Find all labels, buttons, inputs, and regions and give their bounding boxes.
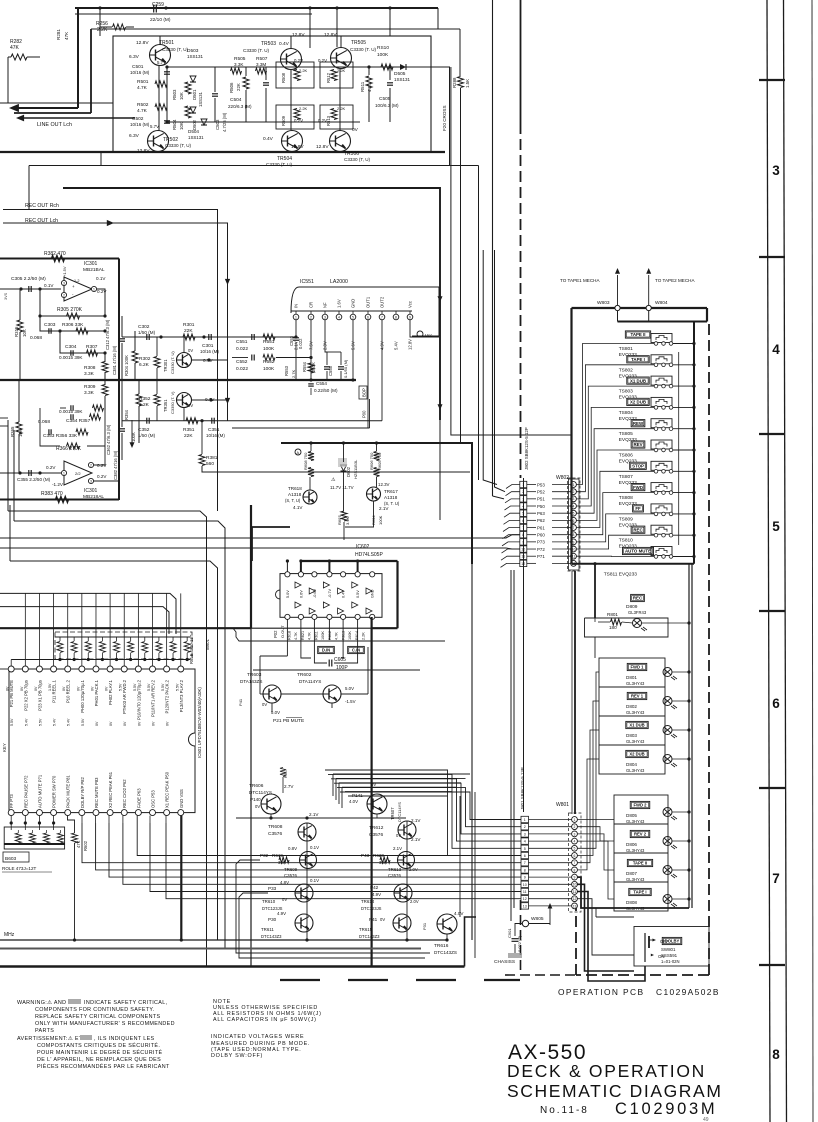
pin J802 pin 11 [520,553,527,559]
svg-text:22/10 (M): 22/10 (M) [150,17,171,23]
svg-text:R307: R307 [86,344,98,350]
svg-text:8: 8 [574,868,576,872]
wire [40,316,105,331]
wire [286,640,288,656]
svg-text:IB601: IB601 [205,638,210,650]
wire [510,570,512,921]
svg-text:0.4V: 0.4V [263,136,274,142]
switch SW801 DOLBY [634,927,709,967]
svg-text:0V: 0V [255,804,260,809]
wire dolby feed [578,877,690,908]
pin J802 pin 9 [520,539,527,545]
svg-text:SCHEMATIC DIAGRAM: SCHEMATIC DIAGRAM [507,1081,723,1101]
wire [77,8,79,108]
svg-text:PH01 PACK.1: PH01 PACK.1 [94,679,99,706]
svg-text:0V: 0V [76,686,80,691]
pin J802 pin 7 [520,524,527,530]
svg-text:0.4V: 0.4V [342,590,346,598]
svg-text:No.11-8: No.11-8 [540,1105,589,1116]
svg-text:C.IN: C.IN [352,648,360,653]
svg-text:5.0V: 5.0V [286,590,290,598]
svg-text:P71: P71 [537,554,545,559]
wire P-stub elbows [236,860,430,953]
node input stubs [0,417,8,419]
svg-text:WARNING:⚠ AND: WARNING:⚠ AND [17,1000,66,1006]
switch TS808 EVQ233 [651,483,672,492]
svg-text:R305 270K: R305 270K [57,307,83,313]
svg-text:C901: C901 [507,928,512,938]
wire [577,386,655,499]
svg-text:PH00 120μ/70μ.1: PH00 120μ/70μ.1 [80,679,85,712]
svg-text:P43: P43 [361,853,370,858]
pin J802 pin 8 [520,531,527,537]
wire IC602 inputs [286,620,288,641]
svg-text:0.2V: 0.2V [46,465,56,470]
svg-text:R352: R352 [139,396,151,402]
pin W802 pin 1 [571,482,577,488]
svg-text:0.1V: 0.1V [44,283,54,288]
svg-text:P73: P73 [537,540,545,545]
svg-text:4: 4 [338,315,340,319]
svg-text:4.0V: 4.0V [349,799,358,804]
wire amplifier enclosure [113,36,431,152]
svg-text:REV 2: REV 2 [634,832,647,837]
svg-text:10/16 (M): 10/16 (M) [130,122,150,127]
pin IC551 pin 8 [393,314,399,320]
svg-text:REC MUTE P83: REC MUTE P83 [94,777,99,808]
svg-text:P50: P50 [537,504,545,509]
pin IC601 top pin 7 PH01 PACK.1 [93,666,99,672]
wire TO TAPE1 MECHA [617,275,619,305]
svg-text:-1.2V: -1.2V [52,482,64,487]
svg-text:STOP: STOP [632,464,644,469]
svg-text:5: 5 [352,315,354,319]
svg-text:0.2V: 0.2V [318,58,327,63]
svg-text:W803: W803 [597,300,610,306]
wire [577,365,655,492]
svg-text:C3330 (T. U): C3330 (T. U) [350,47,377,52]
svg-text:9: 9 [409,315,411,319]
pin W801 pin 1 [572,817,578,823]
svg-text:3: 3 [63,281,65,285]
svg-text:FWD 2: FWD 2 [633,803,647,808]
pin IC601 top pin 3 P23 X1 PB 70μs [36,666,42,672]
wire LINE OUT Rch [0,102,113,104]
wire bottom fan [81,816,83,823]
pin W802 pin 9 [571,539,577,545]
svg-text:BOP: BOP [362,388,367,397]
svg-text:8: 8 [395,315,397,319]
svg-text:D.IN: D.IN [322,648,330,653]
svg-text:PIÈCES RECOMMANDÉES PAR LE FAB: PIÈCES RECOMMANDÉES PAR LE FABRICANT [37,1063,170,1070]
node C.IN [348,646,365,653]
svg-text:C3576: C3576 [268,831,282,837]
switch TS804 EVQ233 [651,397,672,406]
svg-text:4.7K: 4.7K [137,85,148,91]
svg-text:0V: 0V [6,686,10,691]
svg-text:C362 47/6.3 (M): C362 47/6.3 (M) [106,424,111,455]
svg-text:1: 1 [93,287,95,291]
svg-text:TR603: TR603 [247,672,262,678]
svg-text:REC: REC [633,527,643,532]
svg-text:5.7V: 5.7V [150,124,159,129]
svg-text:C551: C551 [236,339,248,345]
diode D505 [400,64,406,70]
resistor pull-up [128,642,134,653]
svg-text:INDICATE SAFETY CRITICAL,: INDICATE SAFETY CRITICAL, [84,1000,168,1006]
svg-text:0.1V: 0.1V [96,276,106,281]
LED D805 GL3HY43 [630,801,650,808]
pin IC601 top pin 13 P13/INT3 PLAY.2 [178,666,184,672]
wire signal rails [167,66,431,68]
svg-text:100K: 100K [348,631,352,640]
svg-text:100K: 100K [263,366,275,372]
wire [99,8,101,36]
svg-text:R508: R508 [281,72,286,83]
svg-text:R604: R604 [371,515,376,525]
svg-text:DECK & OPERATION: DECK & OPERATION [507,1061,706,1081]
pin W801 pin 6 [572,853,578,859]
pin IC601 bottom pin 8 X2 REC PEAK P61 [107,810,113,816]
pin IC601 bottom pin 11 OSC P53 [150,810,156,816]
pin IC602 top pin 12 [312,572,317,577]
svg-text:C552: C552 [236,359,248,365]
svg-text:R301: R301 [183,322,195,328]
wire [577,493,655,535]
svg-text:0V: 0V [34,686,38,691]
pin IC601 top pin 6 PH00 120μ/70μ.1 [79,666,85,672]
svg-text:1SS131: 1SS131 [198,91,203,107]
wire 2.1V rail [236,817,406,819]
wire bus y628 thick [0,627,251,629]
svg-text:4.7K: 4.7K [137,108,148,114]
svg-text:B603: B603 [5,856,17,862]
svg-text:2.1V: 2.1V [411,818,421,823]
svg-text:6: 6 [573,519,575,523]
wire R288 feed [91,28,460,30]
svg-text:5.5V: 5.5V [161,683,165,691]
svg-text:R509: R509 [281,115,286,126]
wire [7,420,9,511]
svg-text:REV: REV [633,442,642,447]
svg-text:REC OUT Rch: REC OUT Rch [25,203,59,209]
svg-text:0V: 0V [166,721,170,726]
svg-text:D802: D802 [626,704,637,709]
svg-text:P53: P53 [537,482,545,487]
svg-text:X2 REC PEAK P61: X2 REC PEAK P61 [108,771,113,808]
transistor TR615 [393,914,411,932]
svg-text:5: 5 [772,519,780,534]
svg-text:100K: 100K [321,631,325,640]
svg-text:DTA114YS: DTA114YS [299,679,321,684]
wire [259,656,261,694]
svg-text:1: 1 [524,818,526,822]
pin W802 pin 10 [571,546,577,552]
svg-text:TAPE I: TAPE I [633,890,646,895]
svg-text:0.22/50 (M): 0.22/50 (M) [314,388,338,393]
svg-text:TR612: TR612 [369,825,384,831]
wire [9,505,11,561]
svg-text:3: 3 [573,497,575,501]
svg-text:1: 1 [63,471,65,475]
svg-text:FWD: FWD [633,485,643,490]
pin IC602 bottom pin 6 [355,614,360,619]
svg-text:11: 11 [523,890,527,894]
svg-text:12.8V: 12.8V [408,339,413,350]
wire [0,668,8,670]
pin J801 pin 2 [521,824,529,830]
svg-text:6: 6 [574,854,576,858]
svg-text:0.2V: 0.2V [318,118,327,123]
switch TS805 EVQ233 [651,419,672,428]
svg-text:R381: R381 [206,455,218,461]
svg-text:PACK MUTE P81: PACK MUTE P81 [66,775,71,808]
pin J801 pin 10 [521,881,529,887]
svg-text:0.022: 0.022 [298,338,303,349]
resistor pull-up [156,642,162,653]
pin IC551 pin 7 [379,314,385,320]
svg-text:(S, T, U): (S, T, U) [285,498,301,503]
svg-text:DTA143ZS: DTA143ZS [240,679,262,684]
svg-text:TO TAPE1 MECHA: TO TAPE1 MECHA [560,278,601,283]
wire signal line lower [122,420,382,422]
svg-text:R506: R506 [229,82,234,93]
node Vcc [417,331,423,337]
wire bus y607 [0,607,169,634]
wire [493,496,505,499]
svg-text:0.1/50 (M): 0.1/50 (M) [343,359,348,378]
svg-text:100/6.3 (M): 100/6.3 (M) [375,103,399,108]
svg-text:22K: 22K [236,83,241,91]
svg-text:0V: 0V [262,702,267,707]
svg-text:47K: 47K [10,45,20,51]
svg-text:HD74LS05P: HD74LS05P [355,552,383,558]
svg-text:TS803: TS803 [619,389,633,395]
wire J802 left elbows [506,485,520,489]
pin J802 pin 10 [520,546,527,552]
svg-text:R354: R354 [124,409,129,420]
svg-text:2.1V: 2.1V [379,506,389,511]
op-amp IC601 UPD7510BCW [9,669,195,813]
svg-text:R618: R618 [288,631,292,640]
wire [577,514,655,542]
svg-text:C305 2.2/50 (M): C305 2.2/50 (M) [11,276,46,282]
pin J801 pin 5 [521,845,529,851]
svg-text:0.022 (Z): 0.022 (Z) [517,935,522,952]
wire LINE OUT arrow [9,104,19,112]
LED D804 GL3HY43 [599,744,665,746]
pin J801 pin 4 [521,838,529,844]
svg-text:C354 R357: C354 R357 [66,418,91,424]
transistor TR505 [331,48,352,69]
wire LED group2 box [614,795,668,911]
wire [158,65,160,131]
pin J801 pin 7 [521,860,529,866]
svg-text:2/2: 2/2 [75,471,81,476]
svg-text:5: 5 [574,847,576,851]
svg-text:C503: C503 [215,119,220,130]
svg-text:C3330 (T. U): C3330 (T. U) [243,48,270,53]
node D.IN [318,646,335,653]
resistor pull-up [142,642,148,653]
svg-text:2: 2 [90,463,92,467]
wire W801 dashed outline [569,813,582,912]
svg-text:1.5K: 1.5K [465,79,470,88]
wire IC602 supply bus [301,560,398,562]
svg-text:12.8V: 12.8V [292,32,305,38]
wire column A [306,823,308,940]
svg-text:CHASISS: CHASISS [494,959,515,965]
svg-text:R315: R315 [14,326,19,337]
svg-text:12.8V: 12.8V [136,40,149,46]
svg-text:C355 2.2/50 (M): C355 2.2/50 (M) [17,477,51,482]
svg-text:TR602: TR602 [297,672,312,678]
svg-text:AUTO MUTE: AUTO MUTE [625,549,651,554]
wire [577,450,655,520]
svg-text:5.4V: 5.4V [53,718,57,726]
transistor TR506 [330,131,351,152]
svg-text:DTC114YS: DTC114YS [397,802,402,822]
svg-text:REW: REW [633,421,644,426]
pin W802 pin 12 [571,560,577,566]
svg-text:0.2V: 0.2V [294,58,303,63]
wire bus [0,258,119,260]
transistor TR618 [303,490,317,504]
svg-text:6.2K: 6.2K [139,362,150,368]
svg-text:TR611: TR611 [261,927,274,932]
svg-text:C505: C505 [379,96,391,102]
wire bundle rows [8,511,207,967]
svg-text:TAPE I: TAPE I [631,357,645,362]
svg-text:TS810: TS810 [619,538,633,544]
pin IC601 bottom pin 5 PACK MUTE P81 [65,810,71,816]
wire [301,640,311,658]
svg-text:2.2K: 2.2K [362,632,366,640]
pin J802 pin 5 [520,510,527,516]
wire [594,564,596,618]
svg-text:4.9V: 4.9V [372,892,381,897]
svg-text:0.1V: 0.1V [310,845,319,850]
svg-text:C304: C304 [65,344,77,350]
pin J801 pin 6 [521,852,529,858]
wire thick frame [63,188,440,420]
svg-text:GL3HY43: GL3HY43 [626,739,645,744]
switch TS801 EVQ233 [651,334,672,343]
svg-text:DTC143Z3: DTC143Z3 [261,934,282,939]
svg-text:R606 750: R606 750 [369,452,374,470]
svg-text:TS802: TS802 [619,367,633,373]
svg-text:0.4V: 0.4V [279,41,290,47]
svg-text:C3330 (T. U): C3330 (T. U) [266,162,293,167]
svg-text:P10/INT0 120μ/70μ.2: P10/INT0 120μ/70μ.2 [136,679,141,720]
svg-text:Vcc: Vcc [425,333,433,338]
svg-text:C3330 (T, U): C3330 (T, U) [162,47,189,52]
svg-text:TS801: TS801 [619,346,633,352]
svg-text:TS804: TS804 [619,410,633,416]
svg-text:P41: P41 [238,698,243,706]
wire [439,420,441,520]
svg-text:POWER SW P70: POWER SW P70 [52,775,57,808]
switch TS810 EVQ233 [651,525,672,534]
svg-text:2: 2 [573,490,575,494]
transistor TR616 [437,914,457,934]
svg-text:R620: R620 [373,853,384,858]
svg-text:5.0V: 5.0V [345,686,354,691]
transistor TR504 [282,131,303,152]
svg-text:1/50 (M): 1/50 (M) [138,433,156,438]
wire bundle drops [332,774,334,796]
pin IC602 bottom pin 5 [341,614,346,619]
svg-text:2: 2 [63,293,65,297]
svg-text:ROLE 473J=12T: ROLE 473J=12T [2,866,37,871]
svg-text:P41: P41 [369,917,378,922]
transistor TR501 [150,45,171,66]
svg-text:P63: P63 [537,511,545,516]
wire [577,429,655,513]
svg-text:DOLBY: DOLBY [665,939,680,944]
svg-text:12: 12 [523,897,527,901]
svg-text:J802 SB8K12S-5 12P: J802 SB8K12S-5 12P [524,427,529,470]
svg-text:3VS: 3VS [4,292,8,300]
node A [295,449,301,455]
node B603 [3,852,29,862]
resistor array RA601 [55,632,192,659]
pin J801 pin 13 [521,903,529,909]
wire feedback R305 [40,289,105,316]
svg-text:REC PAUSE P72: REC PAUSE P72 [23,775,28,808]
svg-text:2: 2 [574,825,576,829]
svg-text:0V: 0V [380,917,385,922]
svg-text:R502: R502 [137,102,149,108]
svg-text:P52: P52 [537,489,545,494]
svg-text:0.0015 39K: 0.0015 39K [59,355,83,360]
pin IC551 pin 3 [322,314,328,320]
svg-text:2.2K: 2.2K [97,27,108,33]
pin IC601 top pin 9 PTH03 AR FWD.2 [121,666,127,672]
svg-text:100K: 100K [378,515,383,525]
svg-text:P21 PB MUTE: P21 PB MUTE [273,718,304,724]
wire TO TAPE2 MECHA [648,275,650,305]
svg-text:R552: R552 [263,359,275,365]
svg-text:4.9V: 4.9V [277,911,286,916]
svg-text:R501: R501 [137,79,149,85]
svg-text:7: 7 [524,861,526,865]
svg-text:7: 7 [772,871,780,886]
svg-text:3.3M: 3.3M [256,62,266,67]
svg-text:0.8V: 0.8V [288,846,297,851]
svg-text:MHz: MHz [4,932,15,938]
svg-text:D803: D803 [626,733,637,738]
wire [28,166,30,210]
wire [578,899,635,955]
svg-text:2: 2 [310,315,312,319]
svg-text:4.8V: 4.8V [280,880,289,885]
svg-text:1: 1 [574,818,576,822]
pin IC602 bottom pin 2 [298,614,303,619]
svg-text:C554: C554 [316,381,327,386]
wire [492,0,494,496]
svg-text:12.8V: 12.8V [291,144,304,150]
svg-text:W804: W804 [655,300,668,306]
wire [202,466,470,472]
svg-text:R553: R553 [284,365,289,376]
pin IC551 pin 5 [350,314,356,320]
svg-text:0.6V: 0.6V [299,590,303,598]
svg-text:PH02 PLAY.1: PH02 PLAY.1 [108,679,113,705]
svg-text:1SS131: 1SS131 [187,54,204,59]
wire [232,336,248,338]
svg-text:0.2V: 0.2V [294,118,303,123]
